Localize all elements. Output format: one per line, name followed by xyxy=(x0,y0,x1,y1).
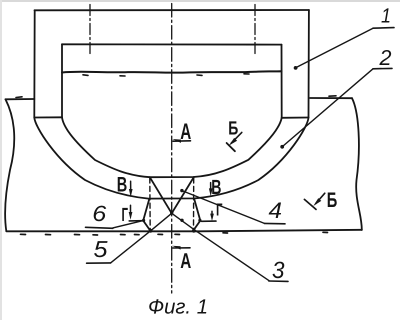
wall bottom step left xyxy=(34,116,62,118)
label 3 underline xyxy=(269,280,288,282)
vessel inner wall right xyxy=(281,45,283,118)
axis dash-dot right xyxy=(254,5,256,57)
svg-text:Г: Г xyxy=(216,200,223,220)
ground tick e xyxy=(121,234,126,236)
ground bottom line xyxy=(6,230,362,232)
ground tick b xyxy=(46,234,51,236)
label 4 underline xyxy=(264,222,285,224)
bottom junction dot left xyxy=(149,229,153,233)
svg-text:Б: Б xyxy=(327,189,338,212)
label 1 underline xyxy=(373,27,394,30)
ground tick c xyxy=(75,234,80,236)
section arrow A top xyxy=(172,139,190,143)
hidden hole dashed right xyxy=(193,178,195,231)
V notch left edge xyxy=(150,177,172,213)
vessel outer wall right xyxy=(308,10,310,118)
leader line 4 with dot xyxy=(182,191,265,224)
leader line 3 with dot xyxy=(172,213,269,280)
ground tick a xyxy=(21,233,26,235)
bowl inner surface xyxy=(62,118,282,178)
melt level tick 1 xyxy=(83,74,88,77)
ground tick h xyxy=(175,233,180,235)
V notch right edge xyxy=(172,177,194,213)
view arrow V right xyxy=(209,183,213,197)
vessel outer shell top edge xyxy=(35,9,309,11)
left wedge xyxy=(143,199,150,231)
vessel inner rim line xyxy=(62,43,282,45)
section arrow A bottom xyxy=(172,246,190,250)
svg-text:В: В xyxy=(117,174,128,197)
svg-text:Б: Б xyxy=(228,119,238,140)
wall bottom step right xyxy=(282,117,309,119)
ground tick d xyxy=(93,234,98,236)
svg-text:А: А xyxy=(180,119,191,144)
melt level tick 4 xyxy=(244,73,249,75)
vessel inner wall left xyxy=(61,44,63,117)
view arrow G left xyxy=(129,205,143,221)
ground tick f xyxy=(135,234,140,236)
ground tick j xyxy=(323,231,328,233)
bowl outer surface xyxy=(34,118,308,199)
leader line 5 xyxy=(111,213,172,263)
melt level tick 2 xyxy=(120,75,125,77)
bottom junction dot right xyxy=(192,229,196,233)
svg-text:3: 3 xyxy=(272,257,285,283)
melt level wavy line xyxy=(62,71,282,72)
label 6 underline xyxy=(86,227,113,228)
label 2 underline xyxy=(373,67,392,69)
leader line 2 with dot xyxy=(282,69,373,147)
base top surface right xyxy=(310,97,352,99)
hidden hole dashed left xyxy=(149,178,151,231)
leader line 6 xyxy=(113,221,144,228)
left wedge corner dot xyxy=(142,219,145,222)
base outline right xyxy=(352,98,362,230)
ground tick g xyxy=(158,233,163,235)
svg-text:4: 4 xyxy=(269,198,283,223)
leader line 1 xyxy=(295,28,373,68)
base top surface left xyxy=(6,98,35,100)
view arrow V left xyxy=(129,181,133,197)
right wedge xyxy=(193,199,200,231)
apex junction dot xyxy=(170,211,173,214)
svg-text:А: А xyxy=(180,249,191,273)
svg-text:Г: Г xyxy=(122,205,129,226)
base surface tick right xyxy=(329,95,336,97)
svg-text:2: 2 xyxy=(378,46,391,70)
view arrow G right xyxy=(202,211,217,221)
svg-text:В: В xyxy=(211,176,221,199)
ground tick i xyxy=(223,232,228,234)
svg-text:1: 1 xyxy=(381,5,391,28)
view arrow B top xyxy=(227,132,242,151)
base surface tick left xyxy=(16,96,22,99)
view arrow B bottom right xyxy=(304,193,324,209)
svg-text:6: 6 xyxy=(92,201,107,226)
label 5 underline xyxy=(87,262,111,264)
svg-text:Фиг. 1: Фиг. 1 xyxy=(148,296,208,319)
centerline A-A xyxy=(171,4,173,294)
vessel outer wall left xyxy=(33,10,35,117)
svg-text:5: 5 xyxy=(94,236,108,262)
axis dash-dot left xyxy=(89,5,91,55)
melt level tick 3 xyxy=(197,74,202,76)
base outline left xyxy=(5,99,14,231)
right wedge corner dot xyxy=(198,219,201,222)
